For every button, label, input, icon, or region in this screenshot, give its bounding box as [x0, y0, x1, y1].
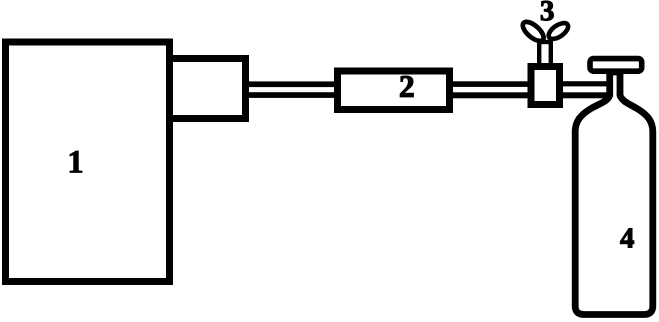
- gas cylinder 4 body outline: [575, 72, 653, 315]
- label 3: [541, 1, 553, 21]
- gas cylinder 4 valve cap: [590, 59, 642, 72]
- tube: coupler to box 2 (upper wall): [246, 81, 340, 87]
- tube: box 2 to valve 3 (lower wall): [450, 92, 531, 98]
- apparatus box 1: [6, 42, 170, 282]
- label 1: [70, 151, 82, 172]
- tube: valve 3 to cylinder neck (lower wall): [558, 92, 612, 98]
- valve 3 wing handle left lobe: [520, 19, 547, 45]
- coupler between box 1 and tube: [170, 59, 246, 119]
- label 2: [400, 76, 413, 97]
- label 4: [620, 229, 633, 248]
- tube: valve 3 to cylinder neck (upper wall): [558, 81, 612, 86]
- tube: coupler to box 2 (lower wall): [246, 92, 340, 98]
- box 2: [338, 71, 450, 110]
- valve 3 body: [531, 67, 560, 105]
- valve 3 wing handle right lobe: [546, 20, 571, 42]
- valve 3 stem: [539, 42, 551, 66]
- tube: box 2 to valve 3 (upper wall): [450, 81, 531, 87]
